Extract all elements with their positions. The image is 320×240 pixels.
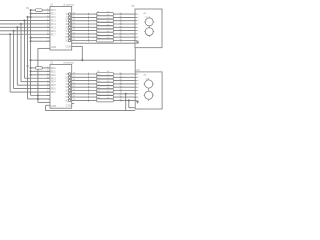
IC U1 ULN2803A darlington array [47,3,74,50]
svg-text:R20: R20 [97,98,100,100]
svg-text:4: 4 [120,23,121,25]
resistor R3 on U1 output 1 [72,11,135,15]
svg-text:2: 2 [138,17,139,19]
wire input feed 3 (to U1 and U2) [0,23,50,82]
svg-text:R10: R10 [97,34,100,36]
svg-text:8C: 8C [65,97,68,99]
svg-text:2: 2 [120,16,121,18]
svg-text:4: 4 [138,24,139,26]
svg-text:R11: R11 [97,38,100,40]
svg-text:7C: 7C [65,94,68,96]
svg-text:3: 3 [120,79,121,81]
svg-text:7: 7 [120,32,121,34]
wire bus to U2 pin2 [31,70,50,72]
svg-text:14: 14 [73,86,75,88]
svg-text:11: 11 [73,36,75,38]
svg-text:13: 13 [73,89,75,91]
resistor R8 on U1 output 6 [72,28,135,32]
resistor R19 on U2 output 8 [72,94,136,98]
wire U1 COM rail to bus and motor boxes [31,46,136,61]
svg-text:8: 8 [120,96,121,98]
svg-text:R5: R5 [97,18,99,20]
wire bus to U2 pin3 [31,74,50,76]
svg-text:2C: 2C [65,17,68,19]
svg-text:3C: 3C [65,81,68,83]
svg-text:4C: 4C [65,24,68,26]
svg-text:12: 12 [73,32,75,34]
svg-text:U2: U2 [50,62,54,65]
svg-text:10k: 10k [107,15,110,17]
svg-text:RD0: RD0 [51,68,56,70]
svg-text:RC2: RC2 [51,17,56,19]
wire motor2 row5 to ground rail [125,93,127,111]
motor M2 winding A [144,79,154,90]
svg-text:R12: R12 [97,71,100,73]
svg-text:2: 2 [120,76,121,78]
wire common rail between motor boxes [134,48,136,72]
svg-text:2: 2 [138,77,139,79]
svg-text:6: 6 [138,30,139,32]
svg-text:10k: 10k [107,11,110,13]
svg-text:11: 11 [73,96,75,98]
resistor R1 [26,7,50,11]
power arrow inside M1 [136,41,139,44]
svg-text:12: 12 [73,92,75,94]
svg-text:COM: COM [66,106,71,108]
svg-text:ULN2803A: ULN2803A [63,62,74,65]
resistor R6 on U1 output 4 [72,21,135,25]
svg-text:COM: COM [66,46,71,48]
svg-text:R14: R14 [97,78,100,80]
svg-text:1: 1 [138,14,139,16]
wire motor2 row7 tap to box [128,99,135,107]
node bus junctions [30,9,32,76]
svg-text:9: 9 [120,39,121,41]
svg-text:4: 4 [120,82,121,84]
resistor R14 on U2 output 3 [72,78,136,82]
svg-text:R8: R8 [97,28,99,30]
svg-text:10k: 10k [107,81,110,83]
svg-text:R7: R7 [97,25,99,27]
svg-text:U6: U6 [136,68,140,72]
wire bus to U1 pin2 [31,13,50,15]
svg-text:10k: 10k [107,34,110,36]
resistor R7 on U1 output 5 [72,25,135,29]
svg-text:2C: 2C [65,77,68,79]
svg-text:10k: 10k [107,78,110,80]
motor M1 winding A [144,17,154,28]
svg-text:RD7: RD7 [51,92,56,94]
svg-text:5: 5 [120,26,121,28]
svg-text:1C: 1C [65,74,68,76]
ground reference label [139,109,140,111]
svg-text:1C: 1C [65,14,68,16]
svg-text:10k: 10k [107,21,110,23]
wire input feed 2 (to U1 and U2) [0,19,50,78]
svg-text:RC3: RC3 [51,20,56,22]
svg-text:1: 1 [120,73,121,75]
svg-text:U5: U5 [131,4,135,8]
svg-text:5: 5 [120,86,121,88]
svg-text:RC5: RC5 [51,27,56,29]
wire bus to U1 pin10 [31,40,50,42]
wire input feed 6 (to U1 and U2) [0,33,50,92]
wire U1 pin9 output to motor 1 [74,42,135,44]
svg-text:RD2: RD2 [51,75,56,77]
svg-text:5: 5 [138,27,139,29]
svg-text:R9: R9 [97,31,99,33]
svg-text:7: 7 [138,94,139,96]
svg-text:R4: R4 [97,15,99,17]
resistor R16 on U2 output 5 [72,84,136,88]
svg-text:6C: 6C [65,91,68,93]
svg-text:14: 14 [73,26,75,28]
svg-text:GND: GND [51,47,56,49]
svg-text:17: 17 [73,76,75,78]
svg-text:10k: 10k [107,28,110,30]
svg-text:8C: 8C [65,37,68,39]
motor M1 winding B [144,27,154,37]
connector/motor M1 box [131,4,162,48]
svg-text:10k: 10k [107,71,110,73]
wire U1 gnd chain to U2 gnd [37,48,50,102]
resistor R18 on U2 output 7 [72,91,136,95]
wire bus to U1 pin9 [31,37,50,39]
svg-text:9C: 9C [65,100,68,102]
resistor R2 [26,65,50,69]
connector/motor M2 box [135,68,162,109]
svg-text:6: 6 [138,90,139,92]
svg-text:10k: 10k [107,18,110,20]
svg-text:5C: 5C [65,27,68,29]
resistor R5 on U1 output 3 [72,18,135,22]
svg-text:7: 7 [138,34,139,36]
svg-text:10k: 10k [107,98,110,100]
svg-text:7: 7 [120,92,121,94]
svg-text:R15: R15 [97,81,100,83]
svg-text:R3: R3 [97,11,99,13]
svg-text:R16: R16 [97,84,100,86]
svg-text:6C: 6C [65,31,68,33]
svg-text:15: 15 [73,23,75,25]
svg-text:5: 5 [138,87,139,89]
svg-text:10k: 10k [107,25,110,27]
wire input feed 1 (to U1 and U2) [26,16,50,99]
svg-text:7C: 7C [65,34,68,36]
svg-text:R17: R17 [97,88,100,90]
svg-text:18: 18 [73,73,75,75]
svg-text:4C: 4C [65,84,68,86]
svg-text:RD1: RD1 [51,71,56,73]
svg-text:R2: R2 [26,65,30,68]
svg-text:6: 6 [120,29,121,31]
resistor R12 on U2 output 1 [72,71,136,75]
svg-text:16: 16 [73,19,75,21]
resistor R11 on U1 output 9 [72,38,135,42]
svg-text:9C: 9C [65,41,68,43]
svg-text:RC1: RC1 [51,14,56,16]
svg-text:10k: 10k [107,91,110,93]
svg-text:RC7: RC7 [51,34,56,36]
resistor R20 on U2 output 9 [72,98,136,102]
resistor R17 on U2 output 6 [72,88,136,92]
svg-text:13: 13 [73,29,75,31]
svg-text:3: 3 [120,19,121,21]
svg-text:RC0: RC0 [51,10,56,12]
svg-text:10k: 10k [107,88,110,90]
svg-text:10: 10 [73,39,75,41]
svg-text:10k: 10k [107,94,110,96]
svg-text:17: 17 [73,16,75,18]
svg-text:1: 1 [138,74,139,76]
wire U2 GND to bottom ground rail [46,105,136,110]
svg-text:15: 15 [73,82,75,84]
svg-text:R6: R6 [97,21,99,23]
resistor R9 on U1 output 7 [72,31,135,35]
svg-text:ULN2803A: ULN2803A [63,3,74,6]
resistor R4 on U1 output 2 [72,15,135,19]
wire input feed 5 (to U1 and U2) [0,30,50,89]
resistor R15 on U2 output 4 [72,81,136,85]
svg-text:RD3: RD3 [51,78,56,80]
svg-text:4: 4 [138,84,139,86]
svg-text:RD6: RD6 [51,89,56,91]
svg-text:8: 8 [138,37,139,39]
svg-text:10k: 10k [107,84,110,86]
power arrow inside M2 [136,101,139,104]
svg-text:0: 0 [139,109,140,111]
svg-text:9: 9 [120,99,121,101]
svg-text:10k: 10k [107,38,110,40]
svg-text:1: 1 [120,13,121,15]
resistor R10 on U1 output 8 [72,34,135,38]
svg-text:U1: U1 [50,3,54,6]
svg-text:RC4: RC4 [51,24,56,26]
svg-text:10: 10 [73,99,75,101]
svg-text:18: 18 [73,13,75,15]
svg-text:GND: GND [51,106,56,108]
svg-text:3: 3 [138,80,139,82]
svg-text:16: 16 [73,79,75,81]
svg-text:3C: 3C [65,21,68,23]
motor M2 winding B [144,89,154,100]
svg-text:R18: R18 [97,91,100,93]
svg-text:RD4: RD4 [51,82,56,84]
wire input bus vertical [31,10,50,95]
svg-text:10k: 10k [107,31,110,33]
svg-text:6: 6 [120,89,121,91]
svg-text:R19: R19 [97,94,100,96]
svg-text:8: 8 [120,36,121,38]
resistor R13 on U2 output 2 [72,75,136,79]
svg-text:5C: 5C [65,87,68,89]
svg-text:RD5: RD5 [51,85,56,87]
svg-text:10k: 10k [107,75,110,77]
svg-text:3: 3 [138,20,139,22]
svg-text:8: 8 [138,97,139,99]
IC U2 ULN2803A darlington array [47,62,74,109]
svg-text:RC6: RC6 [51,31,56,33]
svg-text:R1: R1 [26,7,30,10]
svg-text:R13: R13 [97,75,100,77]
wire input feed 4 (to U1 and U2) [0,26,50,85]
